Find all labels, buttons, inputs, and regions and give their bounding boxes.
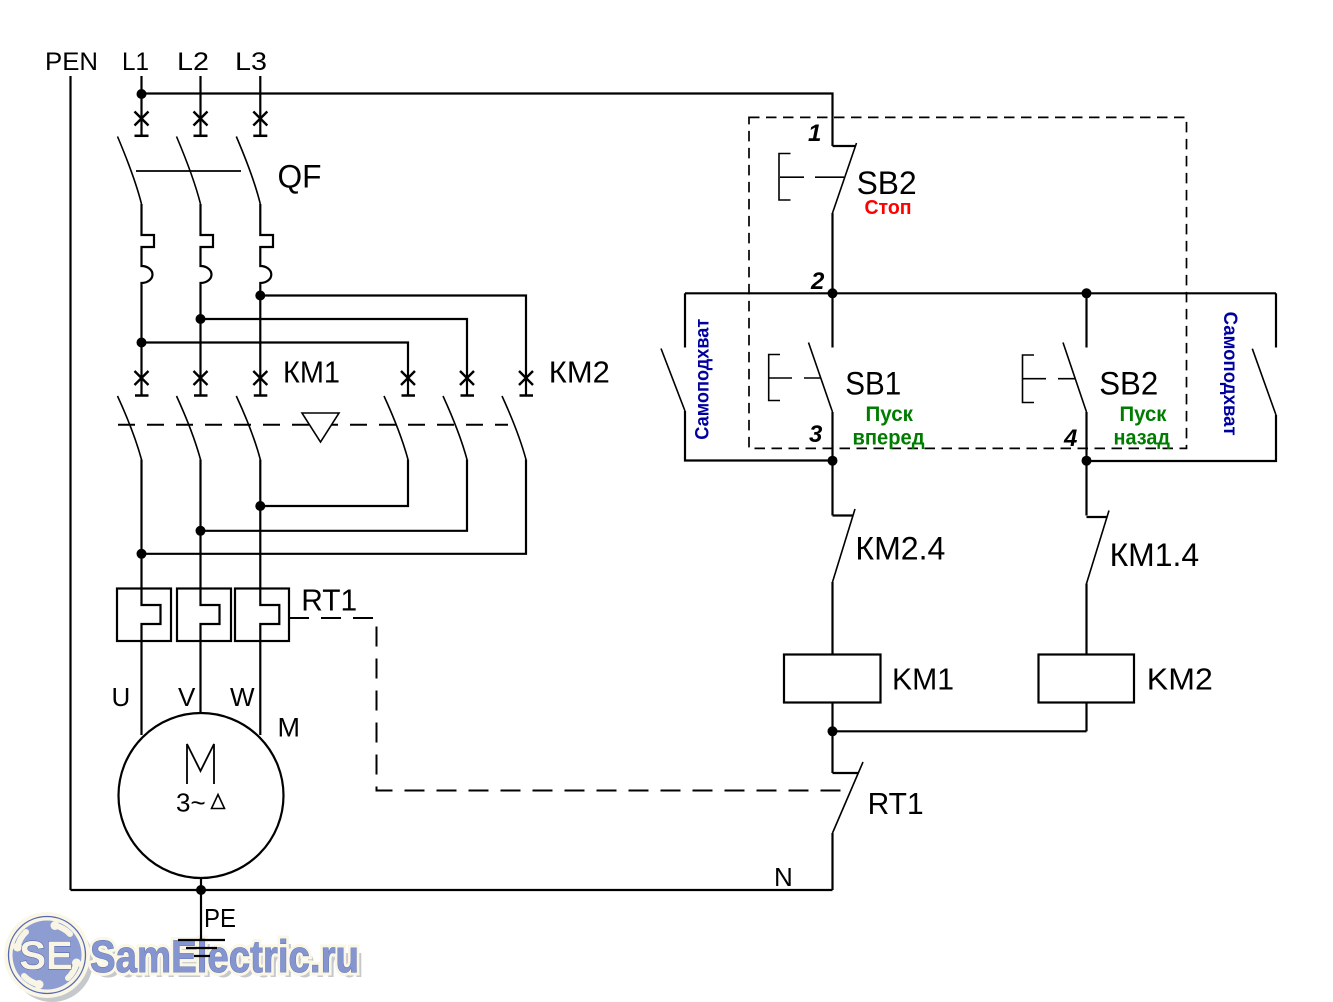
contact KM2.2 self hold blade xyxy=(1252,349,1276,415)
terminal X mark KM1 pole1 xyxy=(135,371,149,385)
motor M glyph xyxy=(187,744,214,784)
junction dot phase C split xyxy=(137,338,147,348)
wire phase A branch to KM2 xyxy=(260,296,526,396)
contact KM1.4 jog xyxy=(1087,516,1107,518)
junction dot node 2 right xyxy=(1082,288,1092,298)
svg-text:Стоп: Стоп xyxy=(865,197,912,219)
wire phase C branch to KM2 xyxy=(142,343,409,396)
wire L3 drop xyxy=(259,76,261,136)
svg-text:Пуск: Пуск xyxy=(866,403,914,426)
wire phase B down to KM1 xyxy=(199,319,201,396)
junction dot node 3 xyxy=(828,456,838,466)
node V label xyxy=(178,682,196,712)
coil KM1 xyxy=(784,655,881,703)
wire phase C down to KM1 xyxy=(140,343,142,396)
svg-text:КМ2.4: КМ2.4 xyxy=(855,531,945,567)
svg-text:Пуск: Пуск xyxy=(1120,403,1167,426)
mechanical link triangle xyxy=(302,413,339,442)
thermal relay RT1 heater box 1 xyxy=(117,589,171,642)
wire L2 drop xyxy=(199,76,201,136)
terminal X mark L2 xyxy=(194,112,208,126)
label QF xyxy=(278,159,322,195)
terminal X mark KM1 pole2 xyxy=(194,371,208,385)
contactor KM1 pole1 blade xyxy=(118,396,142,460)
svg-text:RT1: RT1 xyxy=(868,786,924,821)
contact RT1 jog xyxy=(833,772,859,774)
svg-text:L1: L1 xyxy=(122,48,149,76)
button SB1 blade xyxy=(809,343,833,413)
thermal relay RT1 heater box 3 xyxy=(235,589,289,642)
wire coil KM2 to common xyxy=(1085,703,1087,732)
thermal relay RT1 heater element 3 xyxy=(260,589,279,642)
wire coil KM1 to common xyxy=(831,703,833,732)
terminal bar L2 xyxy=(194,135,208,138)
label coil KM1 xyxy=(892,662,954,697)
label RT1 heaters xyxy=(301,583,357,618)
wire KM2 pole3 output crossover xyxy=(142,460,527,554)
wire W to motor xyxy=(259,641,261,735)
junction dot L1 feed xyxy=(137,89,147,99)
label KM2 contacts xyxy=(549,355,610,390)
wire PEN vertical xyxy=(69,76,71,890)
button SB1 actuator xyxy=(769,355,821,401)
contact KM2.2 self hold terminal xyxy=(1275,293,1277,347)
breaker QF pole 1 blade xyxy=(118,137,142,205)
wire SB2 reverse to KM1.4 xyxy=(1085,412,1087,516)
mechanical link KM1-KM2 dashed xyxy=(118,424,508,426)
thermal relay RT1 heater element 2 xyxy=(201,589,220,642)
terminal bar L1 xyxy=(135,135,149,138)
svg-text:PEN: PEN xyxy=(45,48,98,76)
label SB1 xyxy=(845,366,901,402)
svg-text:Самоподхват: Самоподхват xyxy=(1219,312,1240,436)
wire KM2.4 to coil KM1 xyxy=(831,582,833,655)
svg-text:3: 3 xyxy=(809,421,823,448)
node PEN label xyxy=(45,48,98,76)
label SB2 reverse xyxy=(1099,366,1158,402)
label RT1 contact xyxy=(868,786,924,821)
svg-text:M: M xyxy=(278,713,301,743)
svg-text:3~: 3~ xyxy=(176,788,206,818)
terminal bar KM1 pole2 xyxy=(194,394,208,397)
svg-text:W: W xyxy=(230,682,255,712)
terminal X mark L1 xyxy=(135,112,149,126)
svg-text:SB2: SB2 xyxy=(1099,366,1158,402)
junction dot phase B output xyxy=(196,526,206,536)
node L1 label xyxy=(122,48,149,76)
button SB2 stop jog xyxy=(833,145,856,147)
svg-text:L2: L2 xyxy=(177,48,209,76)
coil KM2 xyxy=(1039,655,1135,703)
wire SB1 to KM2.4 xyxy=(831,412,833,516)
contact RT1 blade xyxy=(833,762,864,833)
node L2 label xyxy=(177,48,209,76)
wire L1 feed to control circuit xyxy=(142,94,833,147)
breaker QF link line xyxy=(136,170,241,172)
junction dot phase A split xyxy=(255,291,265,301)
svg-text:КМ1.4: КМ1.4 xyxy=(1110,537,1200,573)
terminal X mark KM2 pole1 xyxy=(401,371,415,385)
terminal X mark L3 xyxy=(253,112,267,126)
junction dot phase A output xyxy=(255,501,265,511)
junction dot PE xyxy=(196,885,206,895)
wire V to motor xyxy=(199,641,201,713)
wire KM1.1 to node 3 xyxy=(685,411,833,461)
button SB2 stop actuator xyxy=(779,154,844,201)
wire control rail node 2 xyxy=(685,292,1276,294)
thermal relay RT1 heater box 2 xyxy=(177,589,231,642)
contact KM2.4 blade xyxy=(833,509,856,582)
wire KM1 pole2 output xyxy=(199,460,201,589)
terminal bar KM2 pole1 xyxy=(402,394,416,397)
svg-text:Самоподхват: Самоподхват xyxy=(693,319,714,440)
breaker QF pole 3 release xyxy=(260,204,273,296)
wire SB2 stop to node 2 xyxy=(831,213,833,293)
junction dot phase C output xyxy=(137,549,147,559)
contact KM1.1 self hold terminal xyxy=(684,293,686,347)
wire coils common link xyxy=(833,730,1087,732)
label self hold left blue xyxy=(693,319,714,440)
label PE xyxy=(204,903,236,933)
button SB1 terminal xyxy=(831,293,833,347)
contactor KM2 pole1 blade xyxy=(384,396,408,460)
breaker QF pole 1 release xyxy=(142,204,155,343)
node 2 label xyxy=(810,268,825,295)
label Stop red xyxy=(865,197,912,219)
motor delta symbol xyxy=(212,795,225,809)
label coil KM2 xyxy=(1147,662,1213,697)
wire L1 to QF terminal xyxy=(140,94,142,136)
svg-text:назад: назад xyxy=(1114,427,1171,450)
wire phase B branch to KM2 xyxy=(201,319,468,396)
button SB2 reverse blade xyxy=(1063,343,1087,413)
node 1 label xyxy=(808,120,821,147)
ground symbol xyxy=(178,940,225,956)
node 4 label xyxy=(1063,425,1077,452)
label KM1.4 xyxy=(1110,537,1200,573)
svg-text:2: 2 xyxy=(810,268,825,295)
wire N bottom run xyxy=(71,889,833,891)
thermal relay RT1 heater element 1 xyxy=(142,589,161,642)
mechanical link RT1 dashed xyxy=(289,618,841,791)
label M designator xyxy=(278,713,301,743)
motor text 3~ xyxy=(176,788,206,818)
terminal bar KM2 pole3 xyxy=(520,394,534,397)
svg-text:1: 1 xyxy=(808,120,821,147)
svg-text:SB2: SB2 xyxy=(857,165,917,201)
wire KM2 pole2 output crossover xyxy=(201,460,468,531)
label SB2 stop xyxy=(857,165,917,201)
wire KM1 pole1 output xyxy=(140,460,142,589)
svg-text:RT1: RT1 xyxy=(301,583,357,618)
button SB2 forward terminal xyxy=(1085,293,1087,347)
svg-text:PE: PE xyxy=(204,903,236,933)
terminal X mark KM2 pole2 xyxy=(460,371,474,385)
node 3 label xyxy=(809,421,823,448)
terminal X mark KM2 pole3 xyxy=(519,371,533,385)
wire KM1 pole3 output xyxy=(259,460,261,589)
contact KM2.4 jog xyxy=(833,514,853,516)
breaker QF pole 3 blade xyxy=(236,137,260,205)
button SB2 reverse actuator xyxy=(1023,355,1076,403)
breaker QF pole 2 blade xyxy=(177,137,201,205)
contact KM1.1 self hold blade xyxy=(661,349,685,412)
wire RT1 contact to N xyxy=(831,833,833,890)
node W label xyxy=(230,682,255,712)
breaker QF pole 2 release xyxy=(201,204,214,319)
label Pusk vpered green xyxy=(853,403,925,450)
dashed box push button station xyxy=(749,117,1187,448)
terminal bar KM1 pole3 xyxy=(254,394,267,397)
svg-text:QF: QF xyxy=(278,159,322,195)
node N label xyxy=(774,862,793,892)
junction dot coils common xyxy=(828,726,838,736)
button SB2 stop blade xyxy=(833,143,857,213)
svg-text:КМ1: КМ1 xyxy=(283,355,340,390)
wire common to RT1 contact xyxy=(831,731,833,773)
svg-text:KM2: KM2 xyxy=(1147,662,1213,697)
wire U to motor xyxy=(140,641,142,735)
wire L1 drop xyxy=(140,76,142,94)
junction dot phase B split xyxy=(196,314,206,324)
terminal bar L3 xyxy=(253,135,267,138)
node L3 label xyxy=(235,48,267,76)
junction dot node 4 xyxy=(1082,456,1092,466)
wire PE to ground xyxy=(200,890,202,940)
label KM1 contacts xyxy=(283,355,340,390)
svg-text:КМ2: КМ2 xyxy=(549,355,610,390)
wire motor to PE xyxy=(200,878,202,890)
terminal X mark KM1 pole3 xyxy=(253,371,267,385)
terminal bar KM2 pole2 xyxy=(461,394,475,397)
label KM2.4 xyxy=(855,531,945,567)
contactor KM1 pole2 blade xyxy=(177,396,201,460)
svg-text:SB1: SB1 xyxy=(845,366,901,402)
wire KM2.2 to node 4 xyxy=(1087,415,1277,461)
node U label xyxy=(112,682,131,712)
wire KM2 pole1 output crossover xyxy=(260,460,408,507)
contactor KM2 pole3 blade xyxy=(502,396,526,460)
svg-text:U: U xyxy=(112,682,131,712)
wire phase A down to KM1 xyxy=(259,296,261,396)
terminal bar KM1 pole1 xyxy=(135,394,149,397)
contact KM1.4 blade xyxy=(1087,511,1110,584)
svg-text:вперед: вперед xyxy=(853,427,925,450)
svg-text:4: 4 xyxy=(1063,425,1077,452)
contactor KM2 pole2 blade xyxy=(443,396,467,460)
wire KM1.4 to coil KM2 xyxy=(1085,584,1087,655)
contactor KM1 pole3 blade xyxy=(236,396,260,460)
svg-text:KM1: KM1 xyxy=(892,662,954,697)
svg-text:L3: L3 xyxy=(235,48,267,76)
label self hold right blue xyxy=(1219,312,1240,436)
svg-text:V: V xyxy=(178,682,196,712)
motor M circle xyxy=(119,713,284,878)
junction dot node 2 xyxy=(828,288,838,298)
label Pusk nazad green xyxy=(1114,403,1171,450)
svg-text:N: N xyxy=(774,862,793,892)
